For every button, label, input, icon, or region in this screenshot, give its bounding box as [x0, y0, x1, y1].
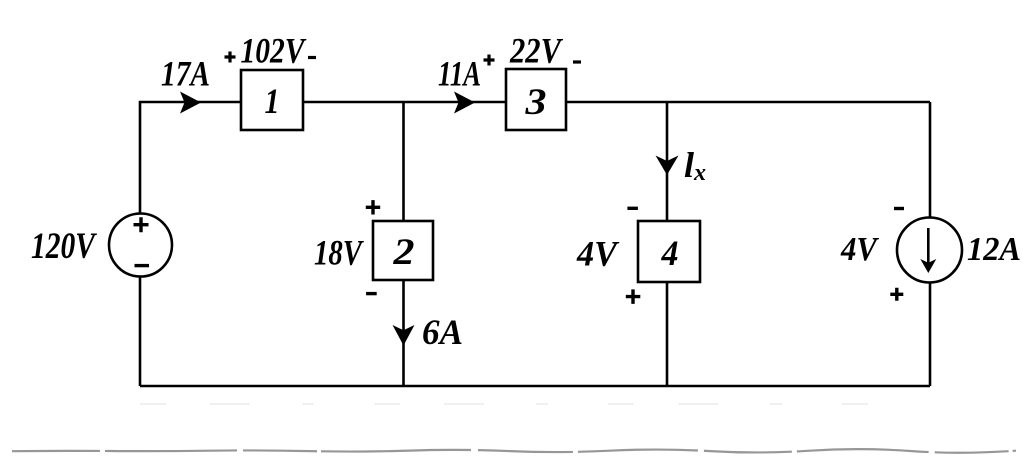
svg-text:6A: 6A	[422, 312, 463, 352]
plus sign left of 22V	[484, 55, 495, 66]
minus sign right of 22V	[573, 60, 581, 63]
wire: left vertical from top-left corner to 120V source top	[140, 102, 241, 214]
svg-text:4V: 4V	[576, 234, 620, 274]
minus sign below box 2	[366, 292, 377, 295]
svg-text:1: 1	[265, 81, 280, 121]
wire: middle branch from node A down to box 2	[402, 102, 405, 221]
wire: middle branch from box 2 down to bottom rail	[402, 280, 405, 386]
svg-text:120V: 120V	[31, 226, 98, 267]
svg-text:3: 3	[524, 82, 546, 123]
wire: right vertical from top-right corner to 12A source top	[929, 102, 932, 218]
minus sign above box 4	[627, 207, 638, 210]
plus sign left of 102V	[225, 52, 236, 63]
plus sign above box 2	[366, 200, 380, 214]
svg-text:4V: 4V	[840, 231, 879, 268]
svg-text:102V: 102V	[241, 31, 307, 71]
element 1 (box)	[241, 70, 303, 130]
current arrow 11A on top wire	[454, 92, 475, 114]
minus sign right of 102V	[308, 56, 316, 59]
svg-text:18V: 18V	[314, 233, 364, 273]
arrow inside 12A source	[927, 228, 930, 264]
faint dashed artifact line above bottom edge	[140, 403, 890, 405]
svg-text:22V: 22V	[509, 31, 563, 71]
svg-text:17A: 17A	[161, 54, 210, 94]
element 3 (box)	[506, 69, 566, 130]
voltage source 120V (circle)	[109, 214, 172, 277]
plus sign inside 120V source	[134, 217, 149, 232]
minus sign above 12A source	[894, 207, 904, 210]
wire: top horizontal between box 1 and box 3	[303, 101, 506, 104]
current arrow 6A on middle branch	[393, 325, 415, 346]
element 4 (box)	[638, 221, 700, 282]
element 2 (box)	[373, 221, 433, 280]
wire: branch from box 4 down to bottom rail	[666, 282, 669, 386]
wire: right vertical from 12A source bottom to bottom-right corner	[929, 283, 932, 386]
wire: left vertical from 120V source bottom to bottom-left corner	[139, 276, 142, 386]
svg-text:4: 4	[661, 233, 679, 273]
minus sign inside 120V source	[135, 264, 150, 267]
svg-text:2: 2	[392, 232, 414, 273]
wire: top horizontal from box 3 to top-right corner	[566, 101, 930, 104]
wire: bottom horizontal rail	[140, 385, 930, 388]
current source 12A (circle)	[897, 218, 962, 283]
plus sign below box 4	[626, 289, 641, 304]
current arrow Ix on branch to box 4	[656, 156, 679, 176]
wire: branch from node B down to box 4	[666, 102, 669, 221]
current arrow 17A on top wire	[180, 92, 201, 114]
plus sign below 12A source	[890, 288, 903, 301]
gray wavy pencil line at bottom edge	[12, 449, 1016, 453]
svg-text:12A: 12A	[967, 231, 1021, 268]
svg-text:11A: 11A	[438, 54, 481, 94]
